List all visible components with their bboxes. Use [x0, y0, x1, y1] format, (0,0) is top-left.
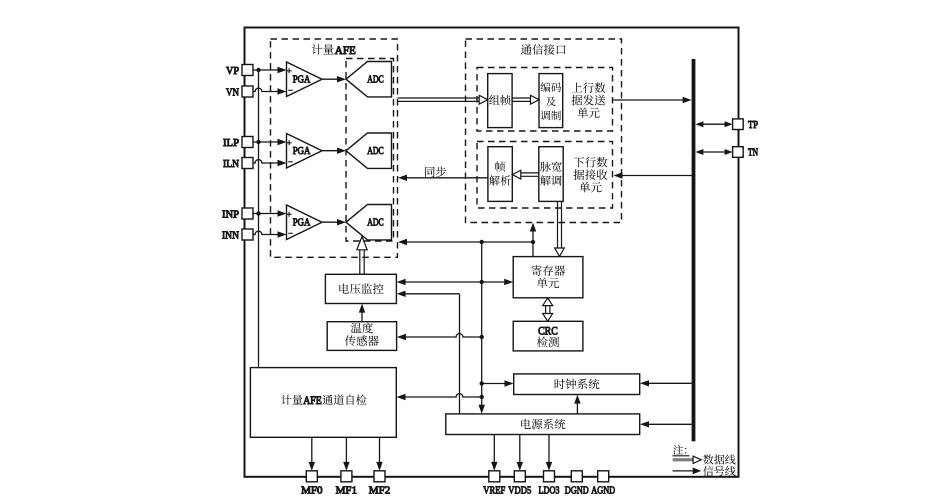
svg-text:ADC: ADC: [367, 217, 384, 229]
svg-text:INN: INN: [222, 230, 239, 242]
wire: bus to 电源系统: [647, 423, 692, 425]
wire 温度传感器 to 电压监控: [361, 311, 363, 322]
label 上行数据发送单元: [572, 82, 606, 93]
legend label 信号线: [703, 466, 735, 476]
wire to pin MF2: [379, 437, 381, 464]
block 编码及调制 (coding & modulation): [539, 74, 563, 128]
wire PGA3 to ADC3: [322, 221, 339, 223]
pin ILP: [242, 137, 253, 148]
pin VREF: [489, 471, 500, 482]
block 计量AFE通道自检 (AFE channel self-check): [250, 368, 396, 438]
wire VN to PGA1 - input (hops over tap net): [253, 88, 279, 91]
svg-text:AGND: AGND: [591, 485, 615, 497]
wire VP to PGA1 + input: [253, 69, 279, 71]
wire PGA1 to ADC1: [322, 78, 339, 80]
ADC group dashed box: [346, 59, 394, 242]
svg-text:ADC: ADC: [367, 145, 384, 157]
block 寄存器单元 (register unit): [513, 257, 583, 298]
block 脉宽解调 (pulse-width demodulation): [539, 147, 563, 202]
data bus: 脉宽解调 to 帧解析 (hollow arrow): [521, 173, 539, 176]
svg-text:TP: TP: [748, 119, 758, 131]
wire: 上行数据发送单元 to bus: [613, 99, 685, 101]
legend 注:: [673, 445, 686, 455]
svg-text:AFE: AFE: [335, 45, 356, 57]
wire PGA2 to ADC2: [322, 150, 339, 152]
svg-text:ILN: ILN: [223, 158, 239, 170]
wire: to 计量AFE通道自检 (y=397, hops x=459.5): [404, 394, 482, 397]
pin MF0: [306, 471, 317, 482]
label 下行数据接收单元: [574, 157, 608, 168]
svg-text:LDO3: LDO3: [539, 485, 560, 497]
data bus: 寄存器单元 to CRC检测 (double hollow arrow): [546, 306, 550, 314]
pin LDO3: [544, 471, 555, 482]
legend label 数据线: [703, 454, 735, 464]
block 电源系统 (power system): [446, 414, 640, 435]
amplifier PGA1: [287, 62, 323, 97]
svg-text:VN: VN: [226, 87, 239, 99]
pin ILN: [242, 158, 253, 169]
pin DGND: [571, 471, 582, 482]
wire to pin VREF: [493, 435, 495, 465]
svg-text:AFE: AFE: [303, 395, 322, 407]
svg-text:VREF: VREF: [483, 485, 505, 497]
wire ILN to PGA2 - input (hops over tap net): [253, 160, 279, 163]
svg-text:INP: INP: [222, 209, 239, 221]
chip outer boundary: [245, 28, 739, 477]
wire: bus to 下行数据接收单元: [621, 175, 696, 177]
legend signal line symbol: [673, 470, 694, 472]
wire to pin MF1: [345, 437, 347, 464]
wire 同步 (sync) from 帧解析 to ADC group: [405, 177, 488, 179]
wire: to 时钟系统 (y=383.5): [482, 383, 507, 385]
ADC3 converter: [346, 205, 392, 240]
wire INN to PGA3 - input (hops over tap net): [253, 231, 279, 234]
wire: up into comm block + down to register: [532, 230, 534, 257]
wire: power rail to 电压监控 (y=293.8): [404, 293, 460, 295]
wire: bus to pin TP (bidirectional): [703, 123, 726, 125]
data bus: 脉宽解调 down to 寄存器单元 (hollow arrow): [558, 201, 562, 248]
pin AGND: [598, 471, 609, 482]
pin TN: [733, 147, 744, 158]
ADC1 converter: [346, 62, 392, 97]
data bus: AFE to 组帧 (hollow arrow): [398, 98, 480, 101]
data bus: 组帧 to 编码及调制 (hollow arrow): [512, 98, 530, 101]
pin INN: [242, 229, 253, 240]
block 温度传感器 (temperature sensor): [327, 322, 396, 351]
wire 电源系统 to 时钟系统: [576, 402, 578, 414]
downlink unit dashed box 下行数据接收单元: [477, 142, 613, 209]
svg-text:TN: TN: [748, 147, 758, 159]
wire to pin MF0: [311, 437, 313, 464]
svg-text:MF0: MF0: [301, 485, 323, 497]
block 组帧 (framing): [488, 74, 512, 128]
pin TP: [733, 119, 744, 130]
wire: vertical trunk x=481.7 down to 电源系统: [481, 242, 483, 407]
svg-text:MF2: MF2: [369, 485, 391, 497]
svg-text:PGA: PGA: [293, 74, 311, 86]
svg-text:ILP: ILP: [223, 137, 239, 149]
wire to pin LDO3: [548, 435, 550, 465]
block 帧解析 (frame parsing): [488, 147, 512, 202]
wire ILP to PGA2 + input: [253, 141, 279, 143]
svg-text:PGA: PGA: [293, 217, 311, 229]
block 电压监控 (voltage monitor): [325, 274, 396, 303]
data bus: 电压监控 up to ADC group (hollow arrow): [360, 250, 364, 274]
pin VN: [242, 86, 253, 97]
metering AFE dashed block 计量AFE: [271, 39, 398, 257]
pin MF1: [341, 471, 352, 482]
amplifier PGA3: [287, 205, 323, 240]
label 计量AFE: [312, 44, 334, 54]
pin VP: [242, 65, 253, 76]
pin VDD5: [514, 471, 525, 482]
svg-text:ADC: ADC: [367, 74, 384, 86]
svg-text:DGND: DGND: [565, 485, 589, 497]
ADC2 converter: [346, 133, 392, 168]
wire: bus to pin TN (bidirectional): [703, 151, 726, 153]
amplifier PGA2: [287, 134, 323, 169]
label 同步: [425, 166, 446, 177]
uplink unit dashed box 上行数据发送单元: [477, 68, 613, 132]
svg-text:VP: VP: [226, 65, 239, 77]
wire: bus to 时钟系统: [647, 382, 692, 384]
svg-text:PGA: PGA: [293, 145, 311, 157]
pin MF2: [374, 471, 385, 482]
wire: to 温度传感器 (y=337, hops x=459.5): [404, 334, 482, 337]
wire INP to PGA3 + input: [253, 213, 279, 215]
wire: self-check tap net (vertical from VP/ILP/INP to self-check block): [258, 70, 260, 368]
wire: vertical power rail x=459.5: [459, 294, 461, 414]
block 时钟系统 (clock system): [514, 374, 640, 395]
block CRC检测 (CRC check): [513, 321, 583, 351]
label 通信接口: [521, 44, 566, 55]
wire: 电压监控 and 寄存器单元 double arrow (y=282): [404, 281, 507, 283]
signal bus (thick vertical line): [692, 59, 696, 441]
legend data line symbol: [673, 458, 693, 461]
svg-text:CRC: CRC: [538, 325, 558, 337]
wire: register/comm to ADC group (y=242): [405, 241, 533, 243]
svg-text:VDD5: VDD5: [508, 485, 531, 497]
wire to pin VDD5: [519, 435, 521, 465]
svg-text:MF1: MF1: [336, 485, 358, 497]
pin INP: [242, 208, 253, 219]
communication interface dashed block 通信接口: [466, 39, 622, 223]
